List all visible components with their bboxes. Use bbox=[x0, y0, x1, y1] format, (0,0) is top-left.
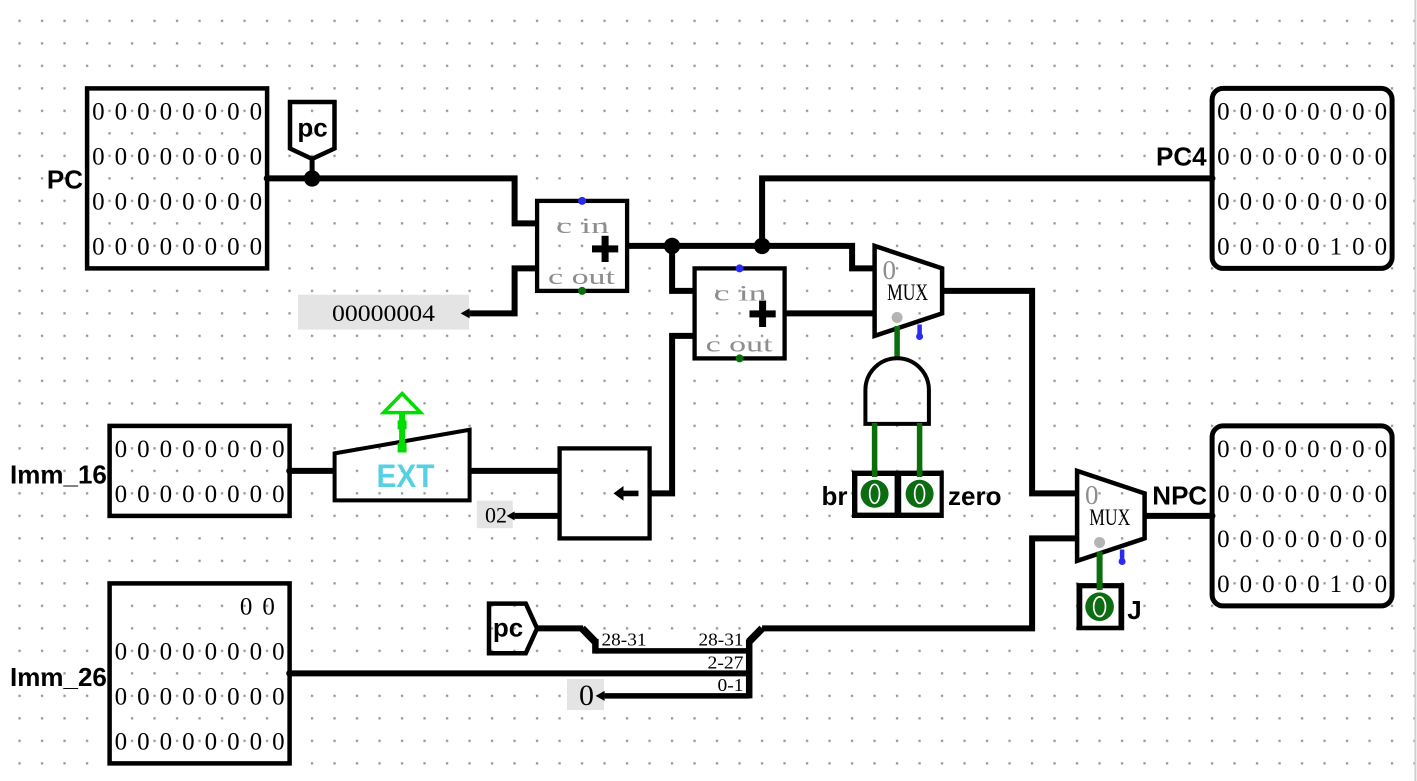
svg-text:02: 02 bbox=[485, 503, 507, 528]
wire PC out to adder1 inA bbox=[267, 178, 537, 223]
sign extender EXT bbox=[335, 430, 470, 501]
svg-text:00000000: 00000000 bbox=[1217, 481, 1397, 508]
wire const 02 to shifter inB bbox=[515, 513, 560, 519]
svg-text:00000000: 00000000 bbox=[115, 481, 295, 508]
label zero bbox=[948, 481, 1001, 511]
svg-text:2-27: 2-27 bbox=[708, 653, 744, 673]
svg-text:0-1: 0-1 bbox=[718, 675, 744, 695]
node at tunnel pc junction bbox=[304, 170, 320, 186]
wire adder2 out to MUX1 in1 bbox=[785, 310, 875, 316]
wire node J2 to PC4 bbox=[762, 178, 1212, 246]
wire AND input right (green) bbox=[917, 423, 923, 472]
svg-text:c out: c out bbox=[706, 331, 773, 356]
svg-text:c out: c out bbox=[548, 264, 615, 289]
svg-text:Imm_16: Imm_16 bbox=[10, 460, 107, 490]
svg-text:PC4: PC4 bbox=[1156, 142, 1207, 172]
svg-text:00000000: 00000000 bbox=[115, 684, 295, 711]
constant 00000004 bbox=[298, 295, 470, 330]
multiplexer MUX2 bbox=[1077, 471, 1145, 565]
svg-text:28-31: 28-31 bbox=[602, 629, 647, 649]
tunnel pc (bottom) bbox=[489, 604, 537, 654]
svg-text:PC: PC bbox=[47, 165, 83, 195]
wire AND input left (green) bbox=[872, 423, 878, 472]
svg-text:00000000: 00000000 bbox=[1217, 189, 1397, 216]
multiplexer MUX1 bbox=[875, 246, 943, 340]
splitter SP1 (extract 28-31) bbox=[582, 628, 646, 653]
wire splitter bits 28-31 bbox=[595, 648, 749, 654]
wire jump address to MUX2 in1 bbox=[762, 538, 1077, 628]
svg-text:00000000: 00000000 bbox=[92, 144, 272, 171]
svg-text:Imm_26: Imm_26 bbox=[10, 662, 107, 692]
pin Imm_26 (input, 26-bit) bbox=[110, 583, 295, 763]
node J2 bbox=[754, 238, 770, 254]
svg-text:00000000: 00000000 bbox=[1217, 99, 1397, 126]
svg-text:00000100: 00000100 bbox=[1217, 571, 1397, 598]
svg-text:zero: zero bbox=[948, 481, 1001, 511]
svg-text:J: J bbox=[1127, 595, 1141, 625]
wire EXT to shifter inA bbox=[470, 468, 560, 474]
label PC4 bbox=[1156, 142, 1207, 172]
svg-text:MUX: MUX bbox=[887, 280, 928, 305]
wire MUX2 out to NPC bbox=[1145, 513, 1213, 519]
svg-text:0: 0 bbox=[579, 679, 594, 712]
wire const 00000004 to adder1 inB bbox=[470, 268, 537, 313]
wire MUX1 out to MUX2 in0 bbox=[942, 291, 1077, 494]
svg-text:00000000: 00000000 bbox=[1217, 436, 1397, 463]
AND gate bbox=[865, 358, 929, 424]
wire MUX1 select (green) bbox=[894, 326, 900, 358]
label br bbox=[822, 481, 848, 511]
wire const 0 bits 0-1 bbox=[605, 693, 750, 699]
label PC bbox=[47, 165, 83, 195]
svg-text:00000000: 00000000 bbox=[1217, 526, 1397, 553]
pin Imm_16 (input, 16-bit) bbox=[110, 426, 295, 516]
node J1 bbox=[664, 238, 680, 254]
pin PC4 (output, 32-bit) bbox=[1209, 88, 1397, 268]
pin br (input, 1-bit) bbox=[852, 468, 944, 518]
canvas right edge bbox=[1414, 0, 1416, 781]
shifter (shift left) bbox=[560, 448, 650, 538]
wire adder1 out to MUX1 in0 bbox=[627, 246, 875, 269]
svg-text:00000100: 00000100 bbox=[1217, 234, 1397, 261]
pin zero (input, 1-bit) bbox=[906, 468, 934, 508]
svg-text:00000004: 00000004 bbox=[332, 301, 436, 326]
wire shifter out to adder2 inB bbox=[650, 336, 695, 494]
constant 02 bbox=[477, 501, 515, 529]
label Imm_26 bbox=[10, 662, 107, 692]
wire Imm_16 to EXT bbox=[290, 468, 335, 474]
constant 0 bbox=[567, 679, 605, 712]
wire node J1 to adder2 inA bbox=[672, 246, 695, 291]
wire MUX2 select (green) bbox=[1097, 552, 1103, 586]
svg-text:00: 00 bbox=[240, 594, 285, 621]
svg-text:00000000: 00000000 bbox=[92, 189, 272, 216]
svg-text:00000000: 00000000 bbox=[115, 436, 295, 463]
label Imm_16 bbox=[10, 460, 107, 490]
svg-text:00000000: 00000000 bbox=[1217, 144, 1397, 171]
svg-text:28-31: 28-31 bbox=[699, 629, 744, 649]
adder U1 bbox=[537, 197, 627, 295]
pin NPC (output, 32-bit) bbox=[1209, 426, 1397, 606]
svg-text:br: br bbox=[822, 481, 848, 511]
svg-text:MUX: MUX bbox=[1089, 505, 1130, 530]
adder U2 bbox=[695, 264, 785, 362]
svg-text:pc: pc bbox=[493, 613, 523, 643]
svg-text:c in: c in bbox=[556, 213, 609, 238]
label NPC bbox=[1152, 481, 1207, 511]
pin PC (input, 32-bit) bbox=[87, 88, 272, 268]
svg-text:00000000: 00000000 bbox=[115, 729, 295, 756]
label J bbox=[1127, 595, 1141, 625]
svg-text:NPC: NPC bbox=[1152, 481, 1207, 511]
svg-text:pc: pc bbox=[297, 113, 327, 143]
pin J (input, 1-bit) bbox=[1077, 581, 1125, 630]
svg-text:00000000: 00000000 bbox=[92, 234, 272, 261]
splitter SP2 (combine 28-31 / 2-27 / 0-1) bbox=[699, 628, 763, 698]
svg-text:c in: c in bbox=[714, 281, 767, 306]
tunnel pc (top) bbox=[290, 102, 335, 178]
svg-text:00000000: 00000000 bbox=[115, 639, 295, 666]
EXT mode input (green arrow, value 1) bbox=[384, 394, 421, 453]
svg-text:EXT: EXT bbox=[377, 458, 435, 494]
wire Imm_26 bits 2-27 bbox=[290, 670, 750, 676]
svg-text:00000000: 00000000 bbox=[92, 99, 272, 126]
wire tunnel pc to splitter SP1 bbox=[537, 625, 583, 631]
